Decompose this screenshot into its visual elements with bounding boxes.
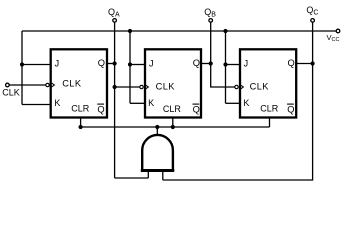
wire QA to U2 clock [115, 86, 140, 88]
svg-text:CLR: CLR [71, 104, 90, 114]
wire Q2 output [201, 63, 211, 65]
junction CLR2 [171, 125, 175, 129]
JK flip-flop U3 [235, 49, 296, 117]
junction QC-Q3 [311, 61, 315, 65]
svg-text:K: K [54, 98, 60, 108]
wire QB net vertical [211, 22, 235, 87]
AND gate G1 [141, 135, 175, 171]
JK flip-flop U2 [140, 49, 201, 117]
wire Q1 output [107, 63, 114, 65]
junction J1 tie [20, 62, 24, 66]
wire CLR3 stub [269, 119, 271, 128]
svg-text:J: J [244, 59, 249, 69]
wire Vcc rail [22, 30, 336, 32]
svg-text:Q: Q [287, 104, 294, 114]
svg-text:CLK: CLK [2, 88, 20, 98]
junction QB-Q2 [209, 61, 213, 65]
junction CLR1 [79, 125, 83, 129]
svg-text:J: J [55, 59, 60, 69]
svg-text:CLK: CLK [62, 79, 82, 89]
svg-text:J: J [149, 59, 154, 69]
wire CLR2 stub [172, 119, 174, 128]
svg-text:Q: Q [98, 58, 105, 68]
junction J2 tie [128, 62, 132, 66]
node Vcc [327, 29, 340, 43]
svg-text:Q: Q [288, 58, 295, 68]
svg-text:CLK: CLK [156, 81, 176, 91]
svg-text:CLR: CLR [260, 104, 279, 114]
node CLK input [2, 83, 20, 97]
svg-text:CLR: CLR [163, 104, 182, 114]
svg-text:Q: Q [193, 58, 200, 68]
wire J2/K2 tie to Vcc [130, 31, 145, 103]
wire J3/K3 tie to Vcc [226, 31, 241, 103]
junction J3 tie [223, 62, 227, 66]
node QB [204, 7, 216, 22]
node QC [306, 5, 318, 22]
svg-text:CLK: CLK [250, 81, 270, 91]
wire QC net vertical to AND input [163, 22, 313, 180]
wire QA net vertical [114, 22, 116, 178]
junction Vcc-tie2 top [128, 29, 132, 33]
junction QA-Q1 [113, 61, 117, 65]
svg-text:K: K [148, 98, 154, 108]
svg-text:Q: Q [97, 104, 104, 114]
wire CLR1 stub [80, 119, 82, 128]
junction AND output [155, 125, 159, 129]
junction Vcc-tie3 top [223, 29, 227, 33]
wire CLK input to U1 [9, 84, 46, 86]
wire QA to AND input [115, 171, 149, 179]
junction QA-CLK2 [113, 85, 117, 89]
node QA [108, 7, 120, 22]
svg-text:K: K [243, 98, 249, 108]
wire CLR bus [81, 126, 270, 128]
wire J1/K1 tie to Vcc [22, 31, 51, 105]
JK flip-flop U1 [46, 49, 107, 117]
wire Q3 output [296, 63, 312, 65]
svg-text:Q: Q [193, 104, 200, 114]
wire AND output [156, 127, 158, 136]
